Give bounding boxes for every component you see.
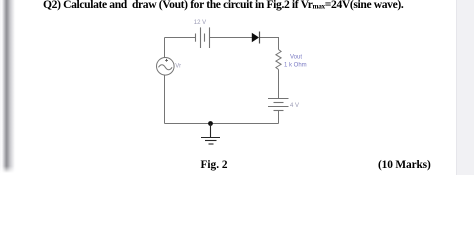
svg-text:Vout: Vout [290, 54, 302, 60]
svg-text:12 V: 12 V [194, 20, 206, 26]
svg-text:4 V: 4 V [290, 103, 299, 109]
svg-text:Vr: Vr [175, 64, 181, 70]
svg-text:1 k Ohm: 1 k Ohm [284, 63, 307, 69]
